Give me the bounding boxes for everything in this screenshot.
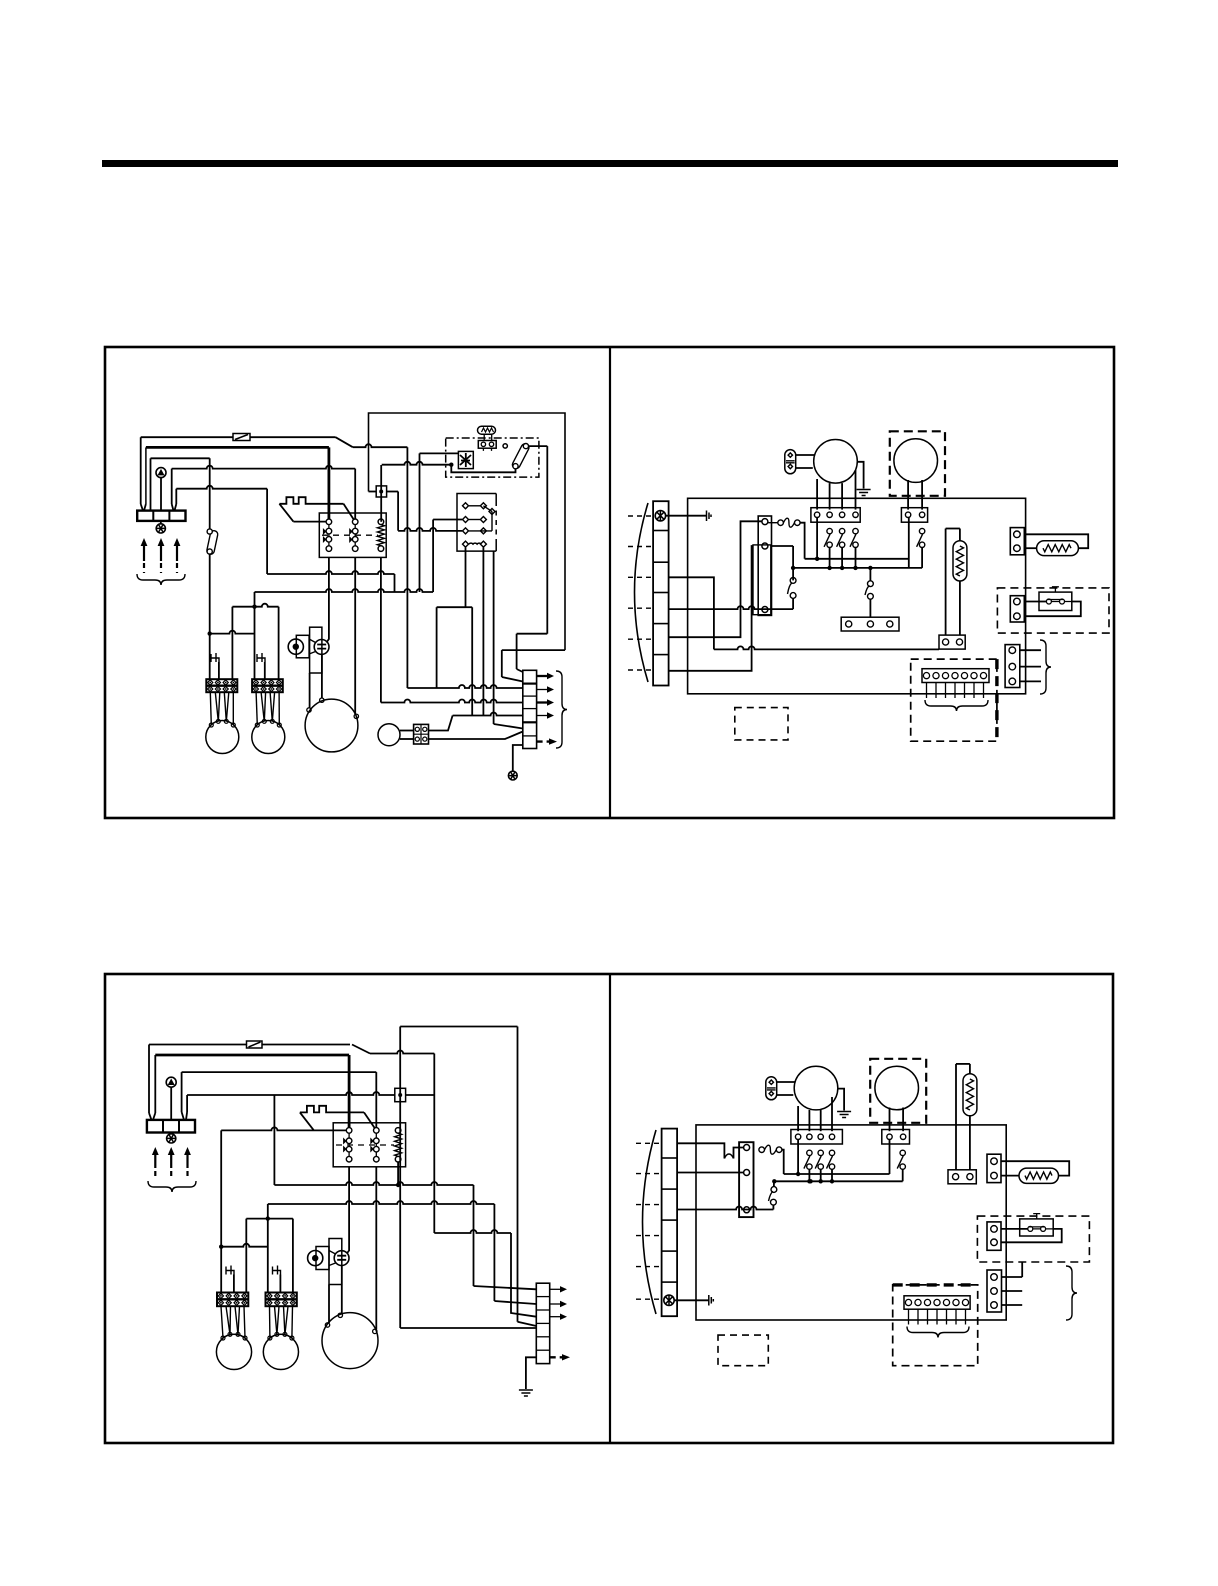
contactor coil resistor xyxy=(377,525,384,546)
speed tap lead xyxy=(829,548,831,568)
B room stat pin xyxy=(953,1299,959,1305)
B CN3 wire1 riser xyxy=(1021,1262,1023,1277)
CN3 pin1 xyxy=(1009,647,1016,654)
B supply arrow 2 xyxy=(168,1147,175,1178)
B loop right xyxy=(517,1027,519,1322)
fan symbol above TB1 xyxy=(156,468,166,478)
RY1 pin2 xyxy=(762,543,768,549)
B loop left xyxy=(399,1027,401,1329)
B room stat lead xyxy=(946,1309,948,1324)
B arc dashed tick 5 xyxy=(636,1266,662,1268)
low pressure switch 63L xyxy=(288,639,303,654)
B wire L2 drop xyxy=(348,1055,351,1130)
B indoor unit arc xyxy=(643,1130,657,1314)
defrost pin2 xyxy=(867,621,873,627)
B fan motor lead xyxy=(269,1306,271,1338)
defrost pin3 xyxy=(887,621,893,627)
B strip2 upper link xyxy=(246,1218,293,1220)
heater loop top xyxy=(946,528,960,530)
B CN3 wire2 xyxy=(1002,1290,1023,1292)
wire feed compressor box xyxy=(420,452,459,454)
loop into strip xyxy=(517,669,523,672)
relay box drop xyxy=(493,551,495,724)
wiring diagram frame (bottom) xyxy=(105,974,1113,1443)
control box outline xyxy=(369,413,566,650)
room stat lead xyxy=(945,683,947,699)
B thermostat body xyxy=(1020,1219,1053,1236)
C1 plates xyxy=(786,461,795,463)
B ground lead xyxy=(526,1357,536,1389)
B pressure switch body xyxy=(316,1247,329,1270)
IFM1 connector pin xyxy=(853,512,858,517)
CN3 brace xyxy=(1040,640,1051,694)
relay coil winding xyxy=(469,542,481,545)
wire to relay row3 xyxy=(398,528,462,531)
fan motor lead xyxy=(278,692,280,725)
contactor pole2 drop xyxy=(354,557,356,714)
B TB divider1 xyxy=(162,1120,164,1133)
B bus 2 xyxy=(268,1201,495,1204)
fan motor pin xyxy=(255,723,259,727)
B earth screw wire xyxy=(674,1299,709,1301)
B supply brace xyxy=(148,1181,196,1192)
power relay RY1 inner xyxy=(753,545,771,615)
fuse link center xyxy=(379,490,383,494)
B TB lead-in 3 xyxy=(182,1112,184,1120)
strip divider 2 xyxy=(523,695,537,697)
B wire N into strip xyxy=(511,1233,536,1317)
bundle vertical xyxy=(471,607,473,715)
thermostat connector CN2 xyxy=(1010,596,1024,622)
B room stat pin xyxy=(924,1299,930,1305)
vane motor wire 2 xyxy=(400,738,414,740)
CN1 pin2 xyxy=(1014,545,1021,552)
wire y453 drop xyxy=(419,453,421,592)
B wire L2 thick xyxy=(155,1054,349,1057)
B funnel bottom xyxy=(329,1263,336,1266)
flag hull xyxy=(279,504,293,522)
relay coil drop a xyxy=(465,548,467,608)
B fan motor pin xyxy=(243,1336,247,1340)
wire through link right xyxy=(387,491,399,493)
63H plates xyxy=(317,645,326,649)
supply brace xyxy=(137,574,185,585)
contactor pole 2 xyxy=(349,519,358,551)
relay coil drop b xyxy=(482,548,484,716)
speed tap junction xyxy=(827,566,831,570)
B power relay RY1 xyxy=(739,1142,753,1217)
wire L3 left vertical xyxy=(150,458,152,510)
63L plunger xyxy=(293,644,299,650)
B coil drop xyxy=(397,1162,399,1185)
fan motor lead xyxy=(256,692,257,725)
contactor pole1 drop xyxy=(327,557,329,642)
link riser xyxy=(380,465,382,522)
relay contact r1c xyxy=(489,509,495,515)
4-pin connector pins xyxy=(414,724,429,744)
B supply arrow 1 xyxy=(152,1147,159,1178)
B compressor motor xyxy=(322,1313,378,1369)
CN1 pin1 xyxy=(1014,531,1021,538)
fan motor lead xyxy=(226,692,229,721)
pressure switch body xyxy=(296,635,309,658)
B C1 plates xyxy=(767,1088,776,1090)
B room stat brace xyxy=(907,1327,969,1338)
B fan motor lead xyxy=(226,1306,230,1334)
B IFM1 connector pin xyxy=(807,1134,812,1139)
pressure switch body 2 xyxy=(310,627,322,673)
B thermostat dashed box xyxy=(977,1216,1089,1262)
B coil junction xyxy=(396,1183,400,1187)
wire L3 drop to switch xyxy=(209,458,211,529)
connector wire up xyxy=(429,716,453,731)
IFM1 pin1 drop xyxy=(816,518,818,559)
B wire N xyxy=(187,1092,395,1095)
room stat pin xyxy=(961,673,967,679)
strip wire A xyxy=(669,577,714,649)
defrost bus junction xyxy=(868,566,872,570)
B heater loop left xyxy=(955,1064,957,1170)
junction in compressor box xyxy=(449,463,453,467)
cluster lead to compressor L xyxy=(309,673,311,708)
strip arrow 5 (field) xyxy=(537,738,557,744)
B indoor strip divider xyxy=(662,1250,678,1252)
compressor motor MC1 xyxy=(305,699,358,752)
B wire L2 left vertical xyxy=(154,1055,156,1113)
earth screw xyxy=(655,511,665,521)
4-pin connector xyxy=(414,724,429,744)
B wire L1 left vertical xyxy=(148,1045,150,1114)
B wire L1 to loop xyxy=(370,1051,434,1054)
B speed tap junction xyxy=(819,1179,823,1183)
B thermal fuse xyxy=(759,1145,782,1154)
compressor symbol below TB1 xyxy=(156,524,165,533)
indoor fan motor IFM1 xyxy=(814,440,858,484)
relay contact r3a xyxy=(463,528,469,534)
wire busB to relay row2 xyxy=(433,519,462,521)
fan motor pin xyxy=(277,723,281,727)
RY1 pin3 xyxy=(762,607,768,613)
strip arrow 2 xyxy=(537,686,554,692)
fan motor lead xyxy=(218,692,220,721)
B indoor strip divider xyxy=(662,1188,678,1190)
coil link2 xyxy=(466,606,473,608)
strip arrow 3 xyxy=(537,699,554,705)
aux relay box xyxy=(457,494,496,552)
CH2 lead xyxy=(264,662,266,679)
heater connector xyxy=(939,635,965,649)
fan capacitor C1 xyxy=(785,450,796,474)
C1 wire upper xyxy=(796,454,815,456)
B wire L1 diagonal xyxy=(352,1045,370,1054)
TB1 divider 1 xyxy=(152,511,154,521)
wire L2 thick xyxy=(146,446,329,449)
relay contact r1a xyxy=(463,503,469,509)
B fan motor lead xyxy=(229,1306,232,1334)
B strip divider xyxy=(536,1322,549,1324)
frame ground xyxy=(508,771,517,780)
B wire L1 upper xyxy=(149,1044,247,1046)
B IFM2 connector pin2 xyxy=(900,1134,905,1139)
B indoor strip divider xyxy=(662,1157,678,1159)
fan terminal strip 1 xyxy=(206,679,237,692)
B speed tap contact xyxy=(815,1150,823,1169)
B fan motor pin xyxy=(268,1336,272,1340)
B IFM1 pin1 drop xyxy=(797,1140,799,1175)
B room stat lead xyxy=(955,1309,957,1324)
B contactor pole 2 xyxy=(370,1128,379,1162)
IFM1 lead 2 xyxy=(829,483,831,510)
IFM2 lead 2 xyxy=(921,480,923,510)
B wire N drop xyxy=(433,1054,435,1234)
strip wire cell4 xyxy=(453,713,523,716)
crankcase heater CH1 xyxy=(211,653,219,662)
arc dashed tick 3 xyxy=(628,576,653,578)
remote connector CN3 xyxy=(1005,645,1020,688)
supply arrow 2 xyxy=(158,538,165,573)
funnel bottom xyxy=(309,652,315,655)
loop drop lower xyxy=(501,650,503,677)
B speed tap contact xyxy=(827,1150,835,1169)
room stat pin xyxy=(942,673,948,679)
strip wire D xyxy=(669,546,753,671)
B arc dashed tick 3 xyxy=(636,1204,662,1206)
strip wire cell2 xyxy=(407,685,522,688)
terminal pin in compressor box xyxy=(503,444,507,448)
B room stat lead xyxy=(927,1309,929,1324)
B room stat pin xyxy=(962,1299,968,1305)
B fan terminal strip 1 xyxy=(217,1293,248,1307)
supply arrow 1 xyxy=(141,538,148,573)
B TB lead-in 4 xyxy=(186,1112,187,1120)
B fan motor lead xyxy=(277,1306,279,1334)
B room stat dashed box xyxy=(893,1285,978,1366)
speed tap contact xyxy=(850,528,858,547)
pin1 junction xyxy=(815,557,819,561)
B fuse link square xyxy=(395,1088,406,1101)
defrost switch riser xyxy=(869,568,871,581)
B remote connector CN3 xyxy=(987,1270,1002,1312)
relay coil b xyxy=(480,541,486,547)
drain pan heater xyxy=(1037,541,1079,556)
B wire N left vertical xyxy=(186,1095,188,1112)
B room stat box heavy edge xyxy=(893,1283,978,1286)
B fan motor pin xyxy=(275,1332,279,1336)
B IFM2 tap contact xyxy=(897,1150,905,1169)
wire through link xyxy=(369,491,377,493)
B drain heater element xyxy=(1025,1172,1052,1179)
B fan symbol xyxy=(166,1077,176,1087)
B strip feed v1 xyxy=(220,1130,222,1292)
indoor terminal strip xyxy=(653,501,669,685)
B arc dashed tick 2 xyxy=(636,1173,662,1175)
B defrost switch riser xyxy=(773,1181,775,1186)
arc dashed tick 1 xyxy=(628,515,653,517)
CN3 wire2 xyxy=(1020,666,1041,668)
B bus1 drop xyxy=(473,1185,475,1286)
B ship drop xyxy=(267,1204,269,1293)
defrost heater xyxy=(953,541,967,581)
overload protector OL xyxy=(478,426,497,451)
fan motor lead xyxy=(272,692,274,721)
B heater connector xyxy=(948,1170,976,1184)
B ship drop junction xyxy=(266,1216,270,1220)
M2 pin1 drop xyxy=(908,518,910,568)
control box inner edge drop xyxy=(546,446,548,634)
B strip arrow 2 xyxy=(550,1301,567,1307)
disconnect switch S1 xyxy=(206,530,218,555)
pin1 wire xyxy=(805,558,909,560)
wire L2 left vertical xyxy=(145,447,147,504)
switch branch junction xyxy=(208,631,212,635)
fan motor lead xyxy=(210,692,211,725)
fuse link square xyxy=(376,486,386,497)
B CN2 pin1 xyxy=(991,1226,998,1233)
B fan motor lead xyxy=(238,1306,240,1334)
wire grounding xyxy=(176,486,267,489)
compressor motor MC xyxy=(458,451,473,468)
B strip arrow 4 (field) xyxy=(550,1354,570,1360)
wire L1 diagonal xyxy=(336,437,353,447)
B LP plunger xyxy=(312,1255,318,1261)
B defrost switch xyxy=(769,1187,777,1206)
room stat pin xyxy=(933,673,939,679)
B IFM1 connector pin xyxy=(829,1134,834,1139)
strip brace xyxy=(556,671,567,748)
B heater drop xyxy=(969,1116,971,1170)
fan motor pin xyxy=(231,723,235,727)
B contactor coil top xyxy=(395,1128,401,1134)
fan motor lead xyxy=(264,692,265,721)
B IFM1 lead 3 xyxy=(820,1110,822,1131)
fan motor pin xyxy=(262,719,266,723)
indoor strip divider xyxy=(653,530,669,532)
B IFM2 tap lead xyxy=(902,1169,904,1181)
contactor dashed bar xyxy=(322,534,378,536)
fan common bus xyxy=(793,567,922,569)
B flag hull bottom wire xyxy=(221,1127,349,1130)
B TB divider2 xyxy=(178,1120,180,1133)
B strip wire cell3 xyxy=(677,1207,773,1210)
terminal block lead-in right2 xyxy=(175,504,177,511)
B fan motor lead xyxy=(291,1306,294,1338)
B drain pan heater xyxy=(1019,1168,1059,1183)
coil link drop xyxy=(436,607,438,688)
indoor strip divider xyxy=(653,623,669,625)
frame divider (bottom) xyxy=(609,974,611,1443)
B pin1 wire xyxy=(784,1173,890,1175)
B fan motor pin xyxy=(290,1336,294,1340)
fan motor lead xyxy=(215,692,218,721)
fan terminal strip 2 xyxy=(252,679,283,692)
B IFM2 lead 2 xyxy=(902,1108,904,1132)
compressor pin L xyxy=(307,708,311,712)
fan motor pin xyxy=(216,719,220,723)
B C1 pin top xyxy=(769,1080,773,1084)
speed tap contact xyxy=(824,528,832,547)
B strip feed junction xyxy=(219,1245,223,1249)
B fan motor pin xyxy=(283,1332,287,1336)
wire ground riser to bus xyxy=(266,489,268,574)
B bus mid junction xyxy=(808,1179,812,1183)
room stat lead xyxy=(926,683,928,699)
compressor pin M xyxy=(320,698,324,702)
B CN3 brace xyxy=(1066,1266,1077,1320)
B CN3 pin1 xyxy=(991,1274,998,1281)
bus left junction xyxy=(791,566,795,570)
room stat strip xyxy=(922,669,989,683)
terminal block TB1 xyxy=(137,511,185,521)
B fan capacitor C1 xyxy=(766,1077,777,1100)
room stat box heavy edge xyxy=(995,659,998,741)
B room stat lead xyxy=(917,1309,919,1324)
PCB outline xyxy=(688,498,1026,694)
B loop left bottom xyxy=(400,1327,536,1329)
contactor 52C box xyxy=(319,513,386,557)
heater loop left xyxy=(945,529,947,636)
loop into strip 2 xyxy=(502,677,523,682)
B fan motor lead xyxy=(235,1306,238,1334)
wire L1 after fuse xyxy=(250,436,336,438)
B cluster lead M xyxy=(341,1266,343,1314)
speed tap lead xyxy=(855,548,857,568)
CN3 wire3 xyxy=(1020,680,1041,682)
CN3 pin2 xyxy=(1009,663,1016,670)
B thermostat contacts xyxy=(1020,1214,1053,1232)
B TB lead-in 1 xyxy=(149,1113,152,1120)
room stat pin xyxy=(971,673,977,679)
B strip wire cell2 xyxy=(677,1172,744,1174)
room stat pin xyxy=(980,673,986,679)
B terminal block xyxy=(147,1120,195,1133)
B IFM1 earth xyxy=(837,1112,851,1118)
B fuse F1 xyxy=(247,1041,263,1048)
B contactor box xyxy=(333,1123,405,1167)
relay row3 link xyxy=(469,530,492,532)
B IFM2 connector pin1 xyxy=(887,1134,892,1139)
arc dashed tick 2 xyxy=(628,546,653,548)
CN3 wire1 xyxy=(1020,649,1041,651)
fuse lead xyxy=(768,522,778,524)
ground lead xyxy=(513,745,523,771)
indoor strip divider xyxy=(653,654,669,656)
B crankcase heater CH1 xyxy=(226,1266,234,1275)
B condenser fan motor FM2 xyxy=(263,1334,298,1369)
loop wire upper xyxy=(517,633,548,635)
relay contact r2b xyxy=(480,517,486,523)
relay contact r1b xyxy=(480,503,486,509)
B strip divider xyxy=(536,1336,549,1338)
relay blade drop xyxy=(491,512,493,531)
branch terminal strip xyxy=(523,670,537,748)
heater loop right upper xyxy=(959,529,961,541)
bus A xyxy=(267,571,394,574)
flag hull bottom wire xyxy=(293,521,329,523)
B indoor strip divider xyxy=(662,1281,678,1283)
B earth tick xyxy=(709,1295,714,1306)
B CN3 wire1 xyxy=(1002,1276,1023,1278)
fuse F1 xyxy=(233,434,250,441)
B high pressure switch xyxy=(334,1251,349,1266)
defrost pin1 xyxy=(846,621,852,627)
condenser fan motor FM1 xyxy=(206,721,239,754)
B arc dashed tick 1 xyxy=(636,1142,662,1144)
B strip divider xyxy=(536,1309,549,1311)
B TB lead-in 2 xyxy=(153,1113,155,1120)
speed tap junction xyxy=(853,566,857,570)
B C1 pin bottom xyxy=(769,1091,773,1095)
thermal fuse xyxy=(778,518,800,527)
